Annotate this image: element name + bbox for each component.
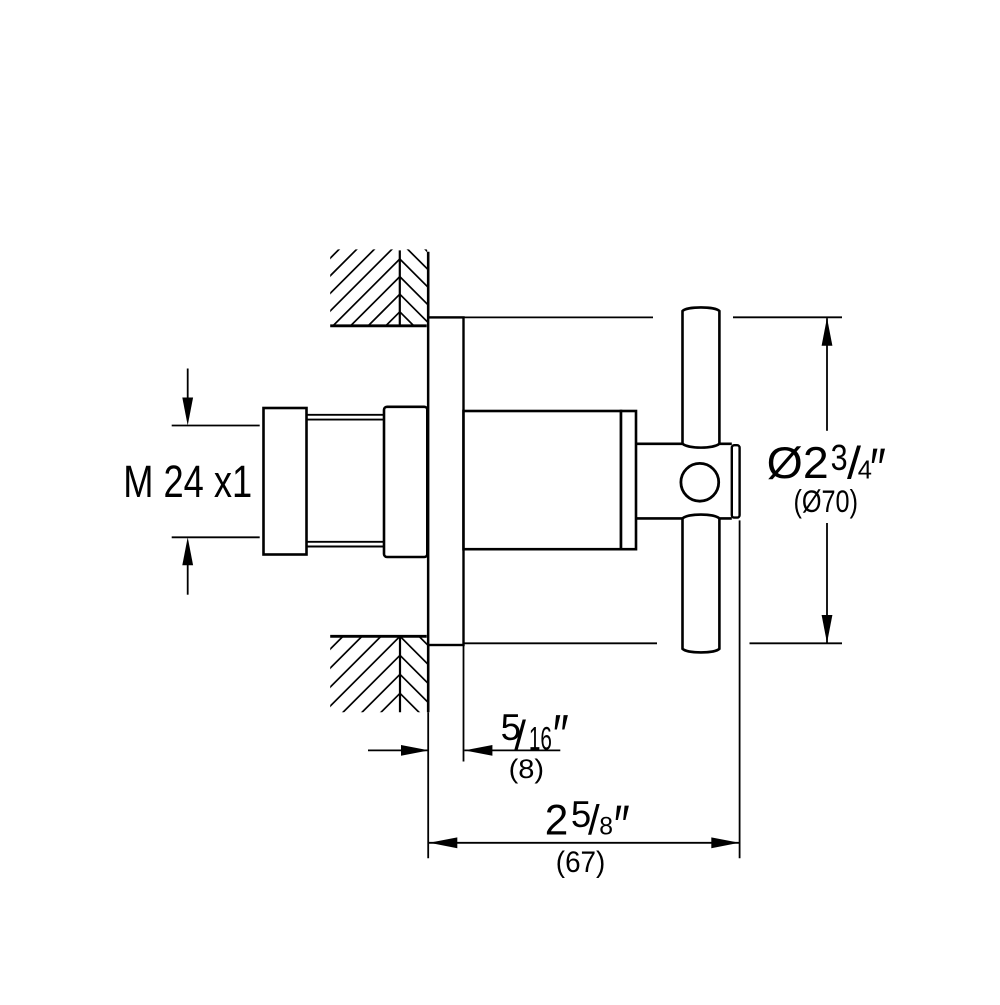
M24 top arrow leader bbox=[187, 369, 189, 401]
svg-text:8: 8 bbox=[599, 813, 613, 840]
svg-text:(Ø70): (Ø70) bbox=[794, 483, 859, 519]
svg-text:2: 2 bbox=[545, 796, 569, 843]
M24 top dim line bbox=[172, 425, 260, 427]
left collar of union nut bbox=[264, 408, 307, 555]
2 5/8 dim line bbox=[429, 842, 740, 844]
wall bottom edge A bbox=[330, 324, 427, 327]
handle hub top outline with saddle bbox=[636, 444, 732, 448]
svg-text:″: ″ bbox=[553, 703, 569, 767]
wall face line bbox=[427, 252, 430, 713]
handle hub bottom outline with saddle bbox=[636, 515, 732, 519]
wall top edge B bbox=[330, 635, 427, 638]
thread crest/root lines bottom bbox=[307, 541, 385, 543]
5/16 left leader with right arrow bbox=[368, 749, 428, 751]
M24 bottom arrow leader bbox=[187, 563, 189, 595]
dia ext line bottom bbox=[464, 642, 658, 644]
escutcheon plate bbox=[428, 317, 463, 645]
dia ext line top bbox=[464, 316, 654, 318]
wall hatch A bbox=[310, 171, 440, 402]
svg-text:16: 16 bbox=[529, 720, 552, 756]
svg-text:(8): (8) bbox=[509, 754, 544, 784]
dia arrow up bbox=[822, 318, 833, 346]
hub end cap bbox=[732, 445, 740, 517]
thread crest/root lines top bbox=[307, 414, 385, 416]
svg-text:/: / bbox=[588, 796, 600, 843]
5/16 right leader with left arrow bbox=[464, 749, 560, 751]
handle bar lower half bbox=[683, 518, 720, 652]
wall hatch B bbox=[310, 579, 440, 783]
svg-text:3: 3 bbox=[831, 437, 848, 478]
2 5/8 right arrow bbox=[711, 837, 739, 848]
dia arrow down bbox=[822, 615, 833, 643]
2 5/8 left arrow bbox=[429, 837, 457, 848]
hub screw circle bbox=[681, 463, 719, 501]
right collar at wall bbox=[384, 407, 427, 557]
svg-text:(67): (67) bbox=[556, 846, 606, 879]
handle bar upper half bbox=[683, 307, 720, 443]
dia dim line upper segment bbox=[826, 318, 828, 431]
wall hatch divider A bbox=[399, 250, 401, 325]
2 5/8 right ext line bbox=[739, 520, 741, 858]
body end band bbox=[621, 411, 636, 549]
M24 bottom dim line bbox=[172, 536, 260, 538]
svg-text:Ø2: Ø2 bbox=[767, 439, 829, 488]
wall hatch divider B bbox=[399, 637, 401, 712]
dia dim line lower segment bbox=[826, 523, 828, 643]
valve body bbox=[464, 411, 622, 549]
svg-text:″: ″ bbox=[870, 436, 886, 500]
svg-text:″: ″ bbox=[614, 794, 630, 858]
svg-text:M 24 x1: M 24 x1 bbox=[123, 456, 252, 507]
5/16 front face ext line bbox=[463, 645, 465, 761]
extension line below wall (left ext of both lower dims) bbox=[427, 712, 429, 858]
